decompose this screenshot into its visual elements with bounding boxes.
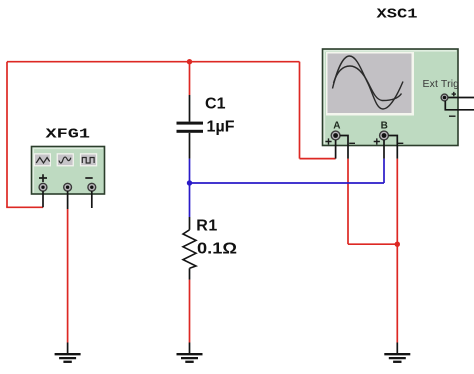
wire red bottom-left horizontal to XFG plus	[6, 206, 43, 208]
resistor R1	[183, 217, 196, 280]
node junction red bottom-right	[395, 242, 400, 247]
wire blue horizontal to scope B plus	[190, 182, 385, 184]
ground left	[55, 354, 81, 362]
function generator XFG1	[32, 147, 105, 195]
wire red horizontal to scope A plus	[300, 158, 336, 160]
wire black stub XFG plus pin	[42, 191, 44, 207]
wire red from cap junction down	[189, 62, 191, 95]
svg-text:XSC1: XSC1	[377, 8, 418, 23]
XFG1 terminal plus	[39, 183, 47, 191]
XFG1 terminal minus	[88, 183, 96, 191]
capacitor C1	[177, 95, 204, 159]
XFG1 button triangle-wave	[34, 153, 51, 166]
XFG1 minus sign	[85, 177, 92, 179]
XSC1 terminal B	[380, 131, 389, 140]
svg-text:Ext Trig: Ext Trig	[423, 78, 460, 90]
wire black stub above ground middle	[189, 343, 191, 354]
wire black stub A plus pin	[335, 140, 337, 159]
wire black stub B plus pin	[383, 140, 385, 159]
wire black stub XFG minus pin	[91, 191, 93, 208]
XSC1 screen	[328, 54, 412, 114]
wire black stub XFG common pin	[67, 191, 69, 209]
svg-text:0.1Ω: 0.1Ω	[197, 241, 237, 258]
node junction red top	[187, 59, 192, 64]
svg-text:XFG1: XFG1	[46, 126, 91, 142]
wire blue junction down to R1	[189, 183, 191, 217]
svg-text:1µF: 1µF	[207, 118, 235, 135]
wire black ext trig plus pin	[448, 97, 474, 99]
XSC1 trace sine outer	[333, 56, 404, 109]
svg-text:A: A	[333, 121, 340, 132]
svg-text:R1: R1	[196, 218, 217, 235]
XSC1 channel A minus sign	[349, 142, 355, 144]
XSC1 channel A plus sign	[325, 138, 331, 144]
svg-text:B: B	[381, 121, 388, 132]
XSC1 ext trig terminal	[441, 94, 448, 101]
wire red scope A minus down	[347, 159, 349, 245]
wire red left vertical	[6, 62, 8, 208]
wire black hook A minus pin	[340, 136, 348, 159]
wire black stub above ground left	[67, 343, 69, 354]
wire black stub above ground right	[396, 343, 398, 354]
wire red right vertical	[299, 62, 301, 159]
XSC1 trace sine inner	[334, 66, 402, 101]
wire black ext trig minus pin	[445, 101, 474, 110]
wire red top horizontal	[7, 61, 300, 63]
XSC1 ext trig minus sign	[449, 115, 456, 117]
XFG1 button square-wave	[80, 153, 97, 166]
wire red horizontal A minus to B minus net	[348, 243, 397, 245]
XFG1 button sine-wave	[57, 153, 74, 166]
wire red scope B minus down to ground	[396, 159, 398, 343]
node junction blue	[187, 180, 192, 185]
ground right	[384, 354, 410, 362]
XFG1 plus sign	[39, 174, 47, 182]
oscilloscope XSC1	[323, 49, 459, 146]
wire blue vertical up to B plus	[383, 159, 385, 183]
XFG1 terminal common	[64, 183, 72, 191]
wire red below R1 to ground	[189, 280, 191, 343]
XSC1 channel B plus sign	[374, 138, 380, 144]
svg-text:C1: C1	[205, 96, 226, 113]
XSC1 screen bezel	[326, 52, 414, 116]
wire black hook B minus pin	[388, 136, 397, 159]
wire red XFG middle terminal down to ground	[67, 209, 69, 343]
XSC1 ext trig plus sign	[452, 92, 456, 96]
wire blue below capacitor	[189, 159, 191, 183]
ground middle	[177, 354, 203, 362]
XSC1 terminal A	[331, 131, 340, 140]
XSC1 channel B minus sign	[398, 142, 404, 144]
